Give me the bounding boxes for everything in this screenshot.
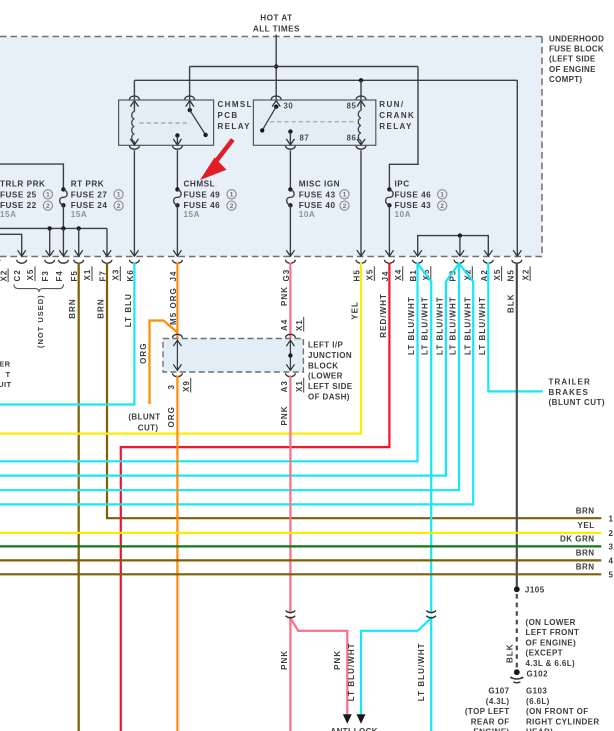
svg-text:TRAILER: TRAILER (549, 378, 591, 387)
svg-text:(TOP LEFT: (TOP LEFT (465, 707, 510, 716)
relay K2 RUN/CRANK RELAY box (253, 100, 375, 145)
fuse F5 IPC (symbol) (387, 187, 391, 191)
relay K1 switch blade (190, 110, 206, 135)
svg-text:3: 3 (609, 542, 614, 551)
wire: RED/WHT from pin J4/X4 down-left-down to bottom (121, 263, 390, 731)
wire: PNK branch to ANTI-LOCK arrow (290, 618, 347, 714)
svg-text:ORG: ORG (167, 406, 176, 427)
wire: BRN line 4 full width (0, 559, 601, 561)
svg-text:ORG: ORG (139, 343, 148, 364)
svg-text:FUSE 43: FUSE 43 (395, 201, 432, 210)
svg-text:PNK: PNK (280, 405, 289, 425)
svg-text:LT BLU/WHT: LT BLU/WHT (435, 296, 444, 355)
svg-text:FUSE 46: FUSE 46 (395, 191, 432, 200)
arrow to ANTI-LOCK (PNK) (343, 714, 352, 724)
wire: RT PRK fuse to bus3 (62, 205, 64, 228)
pin K6 (130, 260, 140, 264)
pin C2 of connector X5 (17, 260, 27, 263)
relay K1 coil (130, 101, 138, 107)
svg-text:(LEFT SIDE: (LEFT SIDE (549, 55, 596, 64)
svg-text:2: 2 (117, 203, 121, 210)
svg-text:FUSE 49: FUSE 49 (184, 191, 221, 200)
svg-text:BRN: BRN (576, 562, 595, 571)
relay K1 coil output arc (bottom) (130, 146, 140, 150)
svg-text:X9: X9 (182, 380, 191, 392)
junction block pin A3 arc (bottom) (286, 373, 296, 376)
svg-text:X5: X5 (366, 269, 375, 281)
svg-text:MISC IGN: MISC IGN (299, 180, 340, 189)
pin A2 of connector X5 (483, 260, 493, 264)
svg-text:RED/WHT: RED/WHT (379, 293, 388, 338)
svg-text:T: T (5, 370, 10, 379)
wire: drop to pin F4 (62, 228, 64, 256)
wire: feed to RT PRK fuse from left (0, 164, 63, 189)
junction block internal link ORG side (176, 341, 178, 370)
svg-text:F3: F3 (41, 270, 50, 281)
svg-text:(BLUNT: (BLUNT (128, 413, 160, 422)
wire: ORG from junction block pin 3/X9 to bottom edge (176, 376, 178, 731)
svg-text:CHMSL: CHMSL (218, 100, 253, 109)
svg-text:BRN: BRN (576, 506, 595, 515)
svg-text:BRN: BRN (68, 298, 77, 318)
relay K1 switch output arc (bottom) (173, 146, 183, 150)
svg-text:COMPT): COMPT) (549, 75, 582, 84)
svg-text:1: 1 (609, 514, 614, 523)
wire: relay K2 pin 86 out to pin H5 (360, 150, 362, 256)
svg-text:TRLR PRK: TRLR PRK (0, 180, 45, 189)
pin F4 (59, 260, 69, 264)
junction block internal link PNK side (289, 341, 291, 370)
svg-text:2: 2 (440, 203, 444, 210)
svg-text:(NOT USED): (NOT USED) (36, 294, 45, 348)
relay K2 pin 30 arc (top) (271, 96, 281, 100)
svg-text:X5: X5 (493, 269, 502, 281)
relay K2 pin 86 arc (bottom) (356, 146, 366, 149)
wire: BRN from pin F5 to bottom edge (78, 263, 80, 731)
svg-text:CHMSL: CHMSL (184, 180, 216, 189)
wire: LT BLU/WHT 2 diagonal from B1 down to ABS (break at inline conn) (418, 264, 432, 613)
svg-text:A4: A4 (280, 319, 289, 331)
relay K2 switch common contact (274, 105, 278, 109)
relay K2 coil-switch dashed link (270, 121, 356, 123)
wire: LT BLU/WHT branch to ANTI-LOCK arrow (361, 618, 431, 714)
wire: bus1 left drop to relay K1 switch pin (189, 67, 191, 100)
svg-text:(ON LOWER: (ON LOWER (526, 618, 576, 627)
svg-text:FUSE 22: FUSE 22 (0, 201, 37, 210)
wire: BRN from pin F7, corner to right edge (line 1) (107, 263, 601, 519)
relay K1 CHMSL PCB RELAY box (119, 100, 214, 145)
node: splice J105 (514, 586, 520, 592)
svg-text:RUN/: RUN/ (379, 100, 404, 109)
svg-text:15A: 15A (71, 210, 88, 219)
node: dot inside junction block on PNK path (288, 353, 292, 357)
svg-text:10A: 10A (395, 210, 412, 219)
wire: relay K1 coil out to pin K6 (133, 150, 135, 256)
svg-text:PNK: PNK (333, 650, 342, 670)
svg-text:PCB: PCB (218, 111, 239, 120)
wire: HOT AT ALL TIMES feed into block (275, 35, 277, 100)
svg-text:15A: 15A (184, 210, 201, 219)
svg-text:85: 85 (347, 102, 357, 111)
wire: YEL line 2 full width (0, 532, 601, 534)
svg-text:LT BLU/WHT: LT BLU/WHT (478, 296, 487, 355)
svg-text:30: 30 (284, 102, 294, 111)
svg-text:X1: X1 (295, 380, 304, 392)
svg-text:5: 5 (609, 570, 614, 579)
wire: LT BLU/WHT 6 from pin A2 to trailer brakes blunt cut (488, 263, 543, 392)
svg-text:RELAY: RELAY (379, 122, 412, 131)
wire: LT BLU/WHT 1 from pin B1 exits left (0, 263, 418, 462)
node: mini bus dot at P3 (458, 233, 462, 237)
svg-text:G102: G102 (527, 670, 549, 679)
svg-text:BRN: BRN (576, 548, 595, 557)
wire: LT BLU/WHT 3 from P3 (left diagonal) exits left (0, 264, 459, 476)
svg-text:X1: X1 (295, 319, 304, 331)
pin J4 of connector X4 (IPC fuse output) (385, 260, 395, 264)
svg-text:OF ENGINE): OF ENGINE) (526, 638, 577, 647)
svg-text:(EXCEPT: (EXCEPT (526, 649, 563, 658)
svg-text:3: 3 (167, 384, 176, 390)
wire: ORG blunt cut branch (150, 321, 178, 405)
svg-text:LT BLU/WHT: LT BLU/WHT (449, 296, 458, 355)
wire: bus1 horizontal (190, 66, 418, 68)
svg-text:(4.3L): (4.3L) (486, 697, 510, 706)
svg-text:FUSE 46: FUSE 46 (184, 201, 221, 210)
svg-text:86: 86 (347, 134, 357, 143)
svg-text:2: 2 (343, 203, 347, 210)
svg-text:FUSE 43: FUSE 43 (299, 191, 336, 200)
relay K2 switch blade (262, 107, 276, 131)
svg-text:F4: F4 (55, 270, 64, 281)
wire: bus2 horizontal (coil feed) (134, 79, 517, 81)
svg-text:BLK: BLK (506, 293, 515, 313)
svg-text:UNDERHOOD: UNDERHOOD (549, 35, 604, 44)
svg-text:2: 2 (46, 203, 50, 210)
node: bus3 dot F4 (61, 226, 65, 230)
svg-text:UIT: UIT (0, 380, 12, 389)
svg-text:LEFT SIDE: LEFT SIDE (308, 382, 353, 391)
svg-text:LT BLU/WHT: LT BLU/WHT (417, 642, 426, 701)
wire: bus2 drop to relay K2 coil pin 85 (360, 80, 362, 99)
wire: YEL from pin H5 exits left (0, 263, 361, 434)
svg-text:FUSE BLOCK: FUSE BLOCK (549, 45, 604, 54)
wire: drop to pin F5 (78, 228, 80, 256)
svg-text:OF DASH): OF DASH) (308, 393, 350, 402)
svg-text:IPC: IPC (395, 180, 410, 189)
svg-text:15A: 15A (0, 210, 17, 219)
svg-text:BLOCK: BLOCK (308, 361, 338, 370)
svg-text:(BLUNT CUT): (BLUNT CUT) (549, 398, 606, 407)
wire: bus1 right drop + feed to IPC fuse (389, 67, 418, 190)
wire: mini bus to pins B1 P3 A2 (418, 236, 489, 257)
junction block pin 3/X9 arc (bottom) (173, 373, 183, 377)
node: bus2 dot at relay K2 coil feed (359, 78, 363, 82)
svg-text:1: 1 (230, 192, 234, 199)
svg-text:ALL TIMES: ALL TIMES (253, 25, 300, 34)
svg-text:1: 1 (440, 192, 444, 199)
svg-text:LEFT FRONT: LEFT FRONT (526, 628, 580, 637)
svg-text:REAR OF: REAR OF (471, 717, 510, 726)
svg-text:A3: A3 (280, 380, 289, 392)
wire: BLK from pin N5 down to J105 (516, 263, 518, 590)
relay K2 pin 85 arc (top) (356, 96, 366, 99)
svg-text:X5: X5 (26, 269, 35, 281)
svg-text:FUSE 24: FUSE 24 (71, 201, 108, 210)
relay K1 switch output contact (175, 133, 179, 137)
pin F7 of connector X3 (102, 260, 112, 264)
pin B1 of connector X5 (413, 260, 423, 264)
wire: CHMSL fuse to pin J4 (176, 205, 178, 256)
ground G102 symbol (514, 669, 520, 675)
brace: NOT USED pins group (14, 284, 64, 292)
svg-text:RIGHT CYLINDER: RIGHT CYLINDER (526, 717, 600, 726)
svg-text:J105: J105 (525, 586, 545, 595)
svg-text:G107: G107 (488, 687, 509, 696)
wire: bus2 left drop to relay K1 coil (133, 80, 135, 99)
wire: PNK from pin G3 to junction block pin A4 (289, 263, 291, 339)
svg-text:4.3L & 6.6L): 4.3L & 6.6L) (526, 659, 576, 668)
underhood fuse block body (0, 37, 542, 257)
red annotation arrow pointing to CHMSL fuse (214, 140, 233, 165)
svg-text:LT BLU/WHT: LT BLU/WHT (347, 642, 356, 701)
svg-text:(LOWER: (LOWER (308, 372, 343, 381)
svg-text:JUNCTION: JUNCTION (308, 351, 352, 360)
svg-text:(6.6L): (6.6L) (526, 697, 550, 706)
svg-text:1: 1 (343, 192, 347, 199)
svg-text:87: 87 (300, 134, 310, 143)
fuse F2 RT PRK (symbol) (61, 187, 65, 191)
svg-text:LT BLU/WHT: LT BLU/WHT (421, 296, 430, 355)
pin G3 (MISC IGN fuse output) (286, 260, 296, 263)
wire: IPC fuse to pin J4/X4 (388, 205, 390, 256)
svg-text:X3: X3 (112, 269, 121, 281)
svg-text:2: 2 (609, 529, 614, 538)
svg-text:BRAKES: BRAKES (549, 388, 589, 397)
svg-text:OF ENGINE: OF ENGINE (549, 65, 596, 74)
wire: ORG from pin J4 to junction block pin M5 (176, 263, 178, 339)
svg-text:ANTI-LOCK: ANTI-LOCK (330, 727, 378, 731)
junction block pin A4 arc (top) (286, 334, 296, 337)
svg-text:LEFT I/P: LEFT I/P (308, 341, 343, 350)
svg-text:LT BLU/WHT: LT BLU/WHT (407, 296, 416, 355)
svg-text:YEL: YEL (578, 521, 595, 530)
pin N5 of connector X2 (512, 260, 522, 264)
svg-text:BRN: BRN (97, 298, 106, 318)
fuse F4 MISC IGN (symbol) (288, 187, 292, 191)
pin H5 of connector X5 (356, 260, 366, 263)
svg-text:10A: 10A (299, 210, 316, 219)
node: bus3 dot F5 (77, 226, 81, 230)
svg-text:X1: X1 (83, 269, 92, 281)
svg-text:(ON FRONT OF: (ON FRONT OF (526, 707, 589, 716)
svg-text:X2: X2 (0, 270, 9, 282)
pin J4 (CHMSL fuse output) (173, 260, 183, 264)
junction block pin M5 arc (top) (173, 334, 183, 338)
pin F3 (45, 260, 55, 264)
wire: LT BLU/WHT 4 from P3 exits left (0, 263, 459, 491)
wire: bus3 corner drop to pin F7 (106, 228, 108, 256)
svg-text:N5: N5 (506, 269, 515, 281)
wire: DK GRN line 3 full width (0, 545, 601, 547)
svg-text:C2: C2 (13, 269, 22, 281)
svg-text:FUSE 25: FUSE 25 (0, 191, 37, 200)
pin P3 of connector X2 (454, 260, 464, 263)
svg-text:RELAY: RELAY (218, 122, 251, 131)
wire: bus3 horizontal (0, 227, 107, 229)
svg-text:2: 2 (230, 203, 234, 210)
svg-text:CUT): CUT) (138, 424, 159, 433)
wire: drop to pin P3 (459, 236, 461, 257)
inline connector break on LT BLU/WHT wire (426, 611, 436, 613)
svg-text:M5 ORG: M5 ORG (169, 287, 178, 325)
svg-text:1: 1 (46, 192, 50, 199)
left I/P junction block body (163, 339, 303, 373)
svg-text:DK GRN: DK GRN (560, 534, 595, 543)
svg-text:PNK: PNK (280, 650, 289, 670)
svg-text:BLK: BLK (505, 643, 514, 663)
wire: LT BLU from pin K6 exits left (0, 263, 134, 405)
wire: LT BLU/WHT 5 from P3 (right diagonal) exits left (0, 264, 473, 505)
inline connector break on PNK wire (286, 611, 296, 613)
svg-text:YEL: YEL (351, 301, 360, 320)
svg-text:RT PRK: RT PRK (71, 180, 104, 189)
relay K1 coil pin arc (top) (130, 96, 140, 100)
relay K2 pin 87 arc (bottom) (286, 146, 296, 149)
fuse block dashed border (0, 36, 542, 38)
relay K1 coil-switch dashed link (140, 122, 188, 124)
svg-text:FUSE 40: FUSE 40 (299, 201, 336, 210)
wire: BRN line 5 full width (0, 573, 601, 575)
pin F5 of connector X1 (74, 260, 84, 263)
node: bus1 junction dot (274, 64, 278, 68)
wire: BLK dashed from J105 to ground G102 (516, 594, 518, 669)
wire: relay K1 switch out to CHMSL fuse (176, 150, 178, 189)
svg-text:4: 4 (609, 556, 614, 565)
svg-text:PNK: PNK (280, 286, 289, 306)
wire: MISC IGN fuse to pin G3 (289, 205, 291, 256)
relay K2 coil (357, 101, 365, 107)
svg-text:CRANK: CRANK (379, 111, 415, 120)
node: bus3 dot F3 (48, 226, 52, 230)
wire: drop to pin F3 (49, 228, 51, 256)
wire: feed to pin C2 from left (0, 234, 22, 256)
relay K1 switch pin arc (top) (185, 96, 195, 100)
svg-text:G103: G103 (526, 687, 547, 696)
wire: bus2 right drop to pin N5 (516, 80, 518, 256)
svg-text:1: 1 (117, 192, 121, 199)
svg-text:X2: X2 (521, 269, 530, 281)
svg-text:LT BLU/WHT: LT BLU/WHT (464, 296, 473, 355)
svg-text:ER: ER (0, 360, 11, 369)
svg-text:LT BLU: LT BLU (124, 293, 133, 327)
svg-text:FUSE 27: FUSE 27 (71, 191, 108, 200)
svg-text:X4: X4 (394, 269, 403, 281)
arrow to ANTI-LOCK (LT BLU/WHT) (357, 714, 366, 724)
relay K1 switch common contact (188, 108, 192, 112)
wire: PNK from junction block pin A3 down (break at inline conn) (289, 376, 291, 613)
svg-text:HOT AT: HOT AT (260, 14, 292, 23)
wire: relay K2 pin 87 out to MISC IGN fuse (289, 150, 291, 189)
fuse F3 CHMSL (symbol) (175, 187, 179, 191)
relay K2 switch output contact pin 87 (288, 129, 292, 133)
